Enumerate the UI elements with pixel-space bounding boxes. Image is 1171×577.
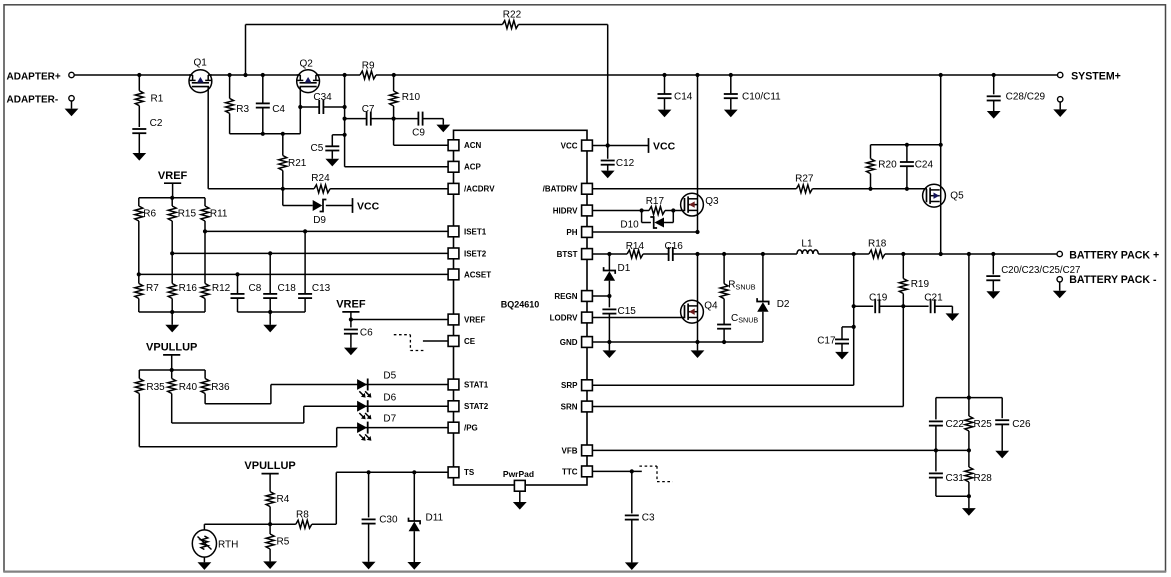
- svg-text:D1: D1: [618, 263, 631, 274]
- svg-text:ACP: ACP: [464, 163, 482, 172]
- svg-text:C2: C2: [150, 118, 163, 129]
- svg-text:R3: R3: [236, 104, 249, 115]
- svg-text:R6: R6: [143, 208, 156, 219]
- svg-text:D9: D9: [313, 215, 326, 226]
- svg-text:D7: D7: [383, 414, 396, 425]
- svg-text:/PG: /PG: [464, 424, 478, 433]
- svg-text:Q5: Q5: [950, 191, 964, 202]
- svg-text:CE: CE: [464, 337, 476, 346]
- svg-text:R28: R28: [974, 473, 993, 484]
- svg-text:C16: C16: [665, 241, 684, 252]
- svg-text:LODRV: LODRV: [550, 313, 579, 322]
- svg-text:C28/C29: C28/C29: [1006, 92, 1046, 103]
- svg-text:R18: R18: [868, 239, 887, 250]
- svg-text:D6: D6: [383, 392, 396, 403]
- svg-text:R7: R7: [146, 283, 159, 294]
- svg-text:C17: C17: [817, 336, 836, 347]
- svg-text:TTC: TTC: [562, 467, 578, 476]
- svg-text:R21: R21: [288, 158, 307, 169]
- svg-text:REGN: REGN: [554, 292, 577, 301]
- svg-text:R9: R9: [362, 60, 375, 71]
- svg-text:Q4: Q4: [704, 300, 718, 311]
- svg-text:RSNUB: RSNUB: [728, 280, 755, 292]
- svg-text:ISET2: ISET2: [464, 249, 487, 258]
- svg-text:C4: C4: [272, 104, 285, 115]
- svg-text:VREF: VREF: [158, 170, 188, 182]
- svg-text:R4: R4: [277, 494, 290, 505]
- svg-text:R20: R20: [878, 159, 897, 170]
- svg-text:VREF: VREF: [464, 315, 485, 324]
- svg-text:C24: C24: [915, 159, 934, 170]
- svg-text:VFB: VFB: [562, 446, 578, 455]
- svg-text:L1: L1: [801, 239, 813, 250]
- svg-text:SRP: SRP: [561, 381, 578, 390]
- svg-text:Q1: Q1: [194, 58, 208, 69]
- svg-text:D11: D11: [426, 513, 444, 524]
- svg-text:C19: C19: [869, 293, 888, 304]
- svg-text:CSNUB: CSNUB: [731, 313, 758, 325]
- svg-text:VCC: VCC: [561, 141, 578, 150]
- svg-text:VPULLUP: VPULLUP: [244, 460, 295, 472]
- svg-text:C9: C9: [412, 128, 425, 139]
- svg-text:C3: C3: [642, 513, 655, 524]
- svg-text:ACSET: ACSET: [464, 270, 491, 279]
- svg-text:BATTERY PACK -: BATTERY PACK -: [1069, 274, 1157, 286]
- svg-text:R5: R5: [277, 537, 290, 548]
- svg-text:ADAPTER+: ADAPTER+: [7, 72, 61, 83]
- svg-text:TS: TS: [464, 468, 475, 477]
- svg-text:R35: R35: [146, 382, 165, 393]
- svg-text:R40: R40: [179, 382, 198, 393]
- svg-text:HIDRV: HIDRV: [553, 206, 578, 215]
- svg-text:PwrPad: PwrPad: [503, 469, 534, 479]
- svg-text:C30: C30: [379, 514, 398, 525]
- svg-text:D10: D10: [620, 220, 639, 231]
- svg-text:STAT2: STAT2: [464, 402, 489, 411]
- svg-text:/ACDRV: /ACDRV: [464, 185, 495, 194]
- svg-text:C8: C8: [249, 283, 262, 294]
- svg-text:STAT1: STAT1: [464, 380, 489, 389]
- svg-text:R12: R12: [212, 283, 231, 294]
- svg-text:D2: D2: [777, 299, 790, 310]
- svg-text:R8: R8: [296, 510, 309, 521]
- svg-text:VPULLUP: VPULLUP: [146, 342, 197, 354]
- svg-text:C15: C15: [618, 306, 637, 317]
- svg-text:ADAPTER-: ADAPTER-: [7, 94, 59, 105]
- svg-text:BTST: BTST: [557, 250, 578, 259]
- svg-text:SYSTEM+: SYSTEM+: [1071, 70, 1121, 82]
- svg-text:C31: C31: [946, 473, 965, 484]
- svg-text:R11: R11: [210, 208, 228, 219]
- svg-text:C6: C6: [360, 328, 373, 339]
- svg-text:D5: D5: [383, 370, 396, 381]
- svg-text:BQ24610: BQ24610: [501, 299, 540, 309]
- svg-text:C14: C14: [674, 92, 693, 103]
- svg-text:RTH: RTH: [218, 539, 238, 550]
- svg-text:VREF: VREF: [336, 299, 366, 311]
- svg-text:R17: R17: [646, 196, 665, 207]
- svg-text:R27: R27: [795, 174, 814, 185]
- svg-text:C10/C11: C10/C11: [742, 92, 781, 103]
- svg-text:C7: C7: [362, 104, 375, 115]
- svg-text:C21: C21: [924, 293, 943, 304]
- svg-text:C34: C34: [313, 92, 332, 103]
- svg-text:ACN: ACN: [464, 141, 482, 150]
- svg-text:R22: R22: [503, 10, 522, 21]
- svg-text:R1: R1: [151, 93, 164, 104]
- svg-text:SRN: SRN: [561, 402, 578, 411]
- svg-text:C22: C22: [946, 419, 965, 430]
- svg-text:R15: R15: [178, 208, 197, 219]
- svg-text:R10: R10: [402, 92, 421, 103]
- svg-text:GND: GND: [560, 338, 578, 347]
- svg-text:C5: C5: [311, 143, 324, 154]
- svg-text:R14: R14: [626, 241, 645, 252]
- svg-text:R16: R16: [179, 283, 198, 294]
- svg-text:R19: R19: [911, 279, 930, 290]
- svg-text:R25: R25: [974, 419, 993, 430]
- svg-text:C13: C13: [312, 283, 331, 294]
- svg-text:C18: C18: [278, 283, 297, 294]
- svg-text:R24: R24: [311, 173, 330, 184]
- svg-text:R36: R36: [211, 382, 230, 393]
- svg-text:BATTERY PACK +: BATTERY PACK +: [1069, 249, 1159, 261]
- svg-text:C26: C26: [1012, 419, 1031, 430]
- svg-text:VCC: VCC: [357, 200, 380, 212]
- svg-text:Q2: Q2: [300, 58, 314, 69]
- svg-text:Q3: Q3: [705, 196, 719, 207]
- svg-text:PH: PH: [566, 228, 577, 237]
- svg-text:VCC: VCC: [653, 140, 676, 152]
- svg-text:ISET1: ISET1: [464, 227, 487, 236]
- svg-text:C12: C12: [616, 158, 635, 169]
- svg-text:/BATDRV: /BATDRV: [543, 185, 578, 194]
